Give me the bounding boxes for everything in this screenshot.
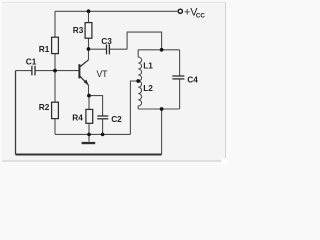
svg-text:C2: C2 <box>111 114 122 124</box>
svg-text:R1: R1 <box>39 44 50 54</box>
svg-text:C1: C1 <box>26 56 37 66</box>
svg-text:CC: CC <box>196 13 205 20</box>
svg-text:C4: C4 <box>187 74 198 84</box>
svg-text:R3: R3 <box>73 25 84 35</box>
svg-text:VT: VT <box>97 69 109 79</box>
svg-text:R2: R2 <box>39 102 50 112</box>
svg-text:L2: L2 <box>143 83 153 93</box>
svg-text:R4: R4 <box>72 112 83 122</box>
svg-text:C3: C3 <box>101 36 112 46</box>
svg-text:L1: L1 <box>143 60 153 70</box>
